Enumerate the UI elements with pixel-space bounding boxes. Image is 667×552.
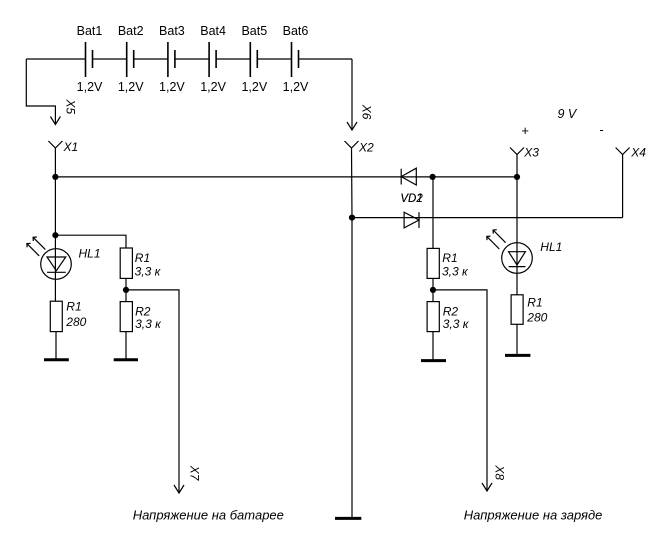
- node dot top bus mid: [430, 174, 436, 180]
- battery Bat6: [292, 42, 299, 77]
- wire left drop to X5: [26, 59, 55, 125]
- svg-text:Bat1: Bat1: [77, 24, 103, 38]
- LED HL1 left cathode bar: [47, 271, 66, 273]
- wire X2 down to ground: [351, 218, 353, 518]
- svg-text:Напряжение на заряде: Напряжение на заряде: [464, 507, 603, 522]
- terminal arrow X5: [50, 117, 60, 125]
- LED HL1 right arrows: [487, 230, 506, 249]
- battery Bat5: [250, 42, 257, 77]
- wire left LED column: [54, 177, 56, 301]
- svg-text:HL1: HL1: [540, 240, 562, 254]
- svg-text:HL1: HL1: [79, 247, 101, 261]
- wire Bat6 to right corner: [299, 58, 353, 60]
- battery Bat3: [168, 42, 175, 77]
- battery Bat4: [209, 42, 216, 77]
- svg-text:X2: X2: [358, 140, 374, 154]
- wire top rail left of Bat1: [26, 58, 85, 60]
- terminal arrow X6: [347, 122, 357, 130]
- battery Bat2: [127, 42, 134, 77]
- svg-text:Bat6: Bat6: [283, 24, 309, 38]
- wire top bus y177: [55, 176, 517, 178]
- svg-text:1,2V: 1,2V: [118, 80, 144, 94]
- svg-text:9 V: 9 V: [558, 107, 578, 121]
- svg-text:X7: X7: [187, 465, 201, 482]
- wire branch to left divider: [55, 235, 126, 248]
- svg-text:R1: R1: [527, 295, 542, 309]
- svg-text:Bat4: Bat4: [200, 24, 226, 38]
- terminal arrow X7: [174, 485, 184, 493]
- wire R2 right to ground: [432, 332, 434, 361]
- diode VD1: [401, 168, 416, 185]
- svg-text:1,2V: 1,2V: [200, 80, 226, 94]
- LED HL1 right cathode bar: [509, 266, 526, 268]
- terminal X4: [616, 148, 630, 218]
- node dot X2 lower bus: [349, 215, 355, 221]
- svg-text:280: 280: [65, 315, 86, 329]
- svg-text:R1: R1: [135, 251, 150, 265]
- svg-text:R1: R1: [66, 300, 81, 314]
- svg-text:3,3 к: 3,3 к: [135, 317, 162, 331]
- ground under R2 right: [421, 359, 446, 362]
- wire right drop to X6: [351, 59, 353, 130]
- wire R1 280 left to ground: [55, 332, 57, 360]
- svg-text:X8: X8: [493, 464, 507, 480]
- wire Bat3-Bat4: [175, 58, 209, 60]
- svg-text:X5: X5: [64, 99, 78, 115]
- wire R1 280 right to ground: [516, 324, 518, 355]
- svg-text:X1: X1: [63, 140, 79, 154]
- ground under R1 280 left: [44, 358, 69, 361]
- resistor R1 280 right: [511, 295, 523, 325]
- svg-text:VD2: VD2: [400, 193, 423, 205]
- resistor R2 3.3k right: [427, 302, 439, 332]
- ground under R1 280 right: [505, 354, 530, 357]
- wire right divider column: [432, 177, 434, 249]
- svg-text:-: -: [599, 122, 603, 137]
- wire right LED column: [516, 177, 518, 295]
- svg-text:3,3 к: 3,3 к: [442, 264, 469, 278]
- node dot left branch: [52, 232, 58, 238]
- svg-text:X3: X3: [523, 146, 539, 160]
- LED HL1 right circle: [502, 243, 533, 274]
- resistor R1 280 left: [50, 301, 62, 331]
- svg-text:1,2V: 1,2V: [77, 80, 103, 94]
- svg-text:X4: X4: [630, 146, 646, 160]
- wire Bat2-Bat3: [134, 58, 168, 60]
- terminal X2: [345, 141, 359, 218]
- terminal X3: [510, 148, 524, 177]
- diode VD2: [404, 212, 419, 228]
- LED HL1 left arrows: [27, 237, 46, 256]
- svg-text:Напряжение на батарее: Напряжение на батарее: [133, 507, 284, 522]
- node dot left divider tap: [123, 287, 129, 293]
- wire left tap to X7: [126, 290, 179, 493]
- svg-text:X6: X6: [360, 104, 374, 120]
- LED HL1 left triangle: [47, 257, 66, 271]
- ground under X2: [335, 517, 361, 520]
- svg-text:R1: R1: [442, 251, 457, 265]
- resistor R1 3.3k left: [120, 248, 132, 278]
- wire between left divider resistors: [125, 278, 127, 301]
- svg-text:1,2V: 1,2V: [159, 80, 185, 94]
- node dot top bus right: [514, 174, 520, 180]
- svg-text:280: 280: [526, 310, 547, 324]
- svg-text:+: +: [521, 123, 529, 138]
- wire lower bus y218: [352, 217, 623, 219]
- svg-text:Bat5: Bat5: [241, 24, 267, 38]
- node dot X1 top bus: [52, 174, 58, 180]
- svg-text:1,2V: 1,2V: [283, 80, 309, 94]
- resistor R2 3.3k left: [120, 302, 132, 332]
- wire Bat1-Bat2: [93, 58, 127, 60]
- wire right tap to X8: [433, 290, 487, 491]
- wire between right divider resistors: [432, 278, 434, 301]
- node dot right divider tap: [430, 287, 436, 293]
- LED HL1 right triangle: [509, 252, 526, 265]
- wire Bat4-Bat5: [216, 58, 250, 60]
- ground under R2 left: [114, 358, 138, 361]
- svg-text:3,3 к: 3,3 к: [135, 264, 162, 278]
- svg-text:1,2V: 1,2V: [241, 80, 267, 94]
- svg-text:3,3 к: 3,3 к: [443, 317, 470, 331]
- wire Bat5-Bat6: [257, 58, 291, 60]
- svg-text:Bat3: Bat3: [159, 24, 185, 38]
- terminal arrow X8: [482, 483, 492, 491]
- LED HL1 left circle: [41, 249, 72, 280]
- svg-text:Bat2: Bat2: [118, 24, 144, 38]
- wire R2 left to ground: [125, 332, 127, 360]
- terminal X1: [48, 141, 62, 177]
- battery Bat1: [86, 42, 93, 77]
- resistor R1 3.3k right: [427, 248, 439, 278]
